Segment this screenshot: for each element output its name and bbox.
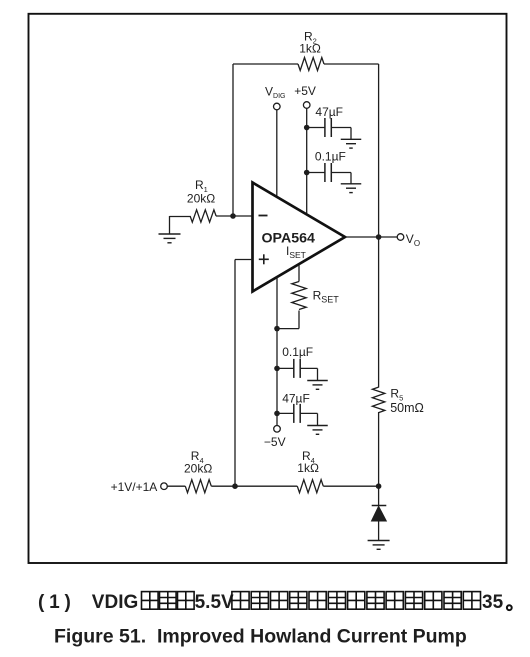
svg-text:35: 35	[482, 592, 504, 613]
resistor R4 1k	[297, 449, 323, 493]
op-amp U1 OPA564	[253, 183, 346, 292]
wire	[378, 486, 380, 505]
svg-text:0.1µF: 0.1µF	[315, 149, 346, 163]
terminal VDIG	[265, 84, 285, 109]
ground	[341, 184, 362, 193]
diode D1	[372, 506, 387, 522]
wire	[378, 237, 380, 388]
wire	[345, 236, 397, 238]
svg-text:+1V/+1A: +1V/+1A	[111, 480, 158, 494]
wire	[277, 311, 299, 329]
wire	[233, 63, 298, 65]
svg-text:1kΩ: 1kΩ	[299, 42, 321, 56]
capacitor C3 0.1&#181;F	[277, 345, 318, 381]
node junction	[274, 366, 280, 372]
svg-text:20kΩ: 20kΩ	[187, 192, 215, 206]
node junction	[376, 483, 382, 489]
node junction	[274, 326, 280, 332]
wire	[324, 63, 379, 65]
wire	[170, 215, 234, 218]
svg-text:5.5V: 5.5V	[195, 592, 234, 613]
ground	[307, 426, 328, 435]
wire	[323, 485, 378, 487]
terminal -5V	[264, 426, 286, 450]
svg-text:+5V: +5V	[294, 84, 316, 98]
node junction	[304, 170, 310, 176]
svg-text:Figure 51. Improved Howland C: Figure 51. Improved Howland Current Pump	[54, 626, 467, 648]
wire	[232, 64, 234, 216]
wire	[169, 216, 171, 234]
wire	[306, 108, 308, 214]
svg-text:0.1µF: 0.1µF	[282, 345, 313, 359]
wire	[235, 260, 253, 487]
node junction	[232, 483, 238, 489]
ground	[368, 541, 390, 550]
svg-text:1kΩ: 1kΩ	[297, 461, 319, 475]
resistor R2	[298, 30, 324, 71]
capacitor C1 47&#181;F	[307, 105, 351, 139]
wire	[298, 265, 300, 282]
capacitor C2 0.1&#181;F	[307, 149, 351, 183]
svg-text:(1): (1)	[38, 592, 76, 613]
node junction	[274, 411, 280, 417]
wire	[276, 277, 278, 426]
ground	[159, 234, 181, 243]
svg-text:47µF: 47µF	[315, 105, 343, 119]
resistor RSET	[292, 282, 339, 310]
svg-text:−5V: −5V	[264, 435, 286, 449]
caption note 1	[38, 592, 512, 613]
capacitor C4 47&#181;F	[277, 391, 318, 425]
wire	[167, 485, 185, 487]
resistor R4 20k	[184, 449, 212, 493]
wire	[276, 110, 278, 197]
node junction	[376, 234, 382, 240]
svg-text:VDIG: VDIG	[92, 592, 138, 613]
terminal +1V/+1A	[111, 480, 168, 494]
svg-text:47µF: 47µF	[282, 391, 310, 405]
resistor R1	[187, 178, 216, 222]
caption Figure 51	[54, 626, 467, 648]
terminal VO	[397, 232, 420, 248]
wire	[211, 485, 297, 487]
svg-text:50mΩ: 50mΩ	[390, 401, 424, 415]
terminal +5V	[294, 84, 316, 108]
node junction	[230, 213, 236, 219]
ground	[307, 381, 328, 390]
wire	[378, 412, 380, 486]
node junction	[304, 125, 310, 131]
wire	[233, 215, 253, 217]
wire	[378, 521, 380, 541]
ground	[341, 139, 362, 148]
resistor R5	[372, 387, 423, 415]
svg-text:20kΩ: 20kΩ	[184, 461, 212, 475]
wire	[378, 64, 380, 237]
